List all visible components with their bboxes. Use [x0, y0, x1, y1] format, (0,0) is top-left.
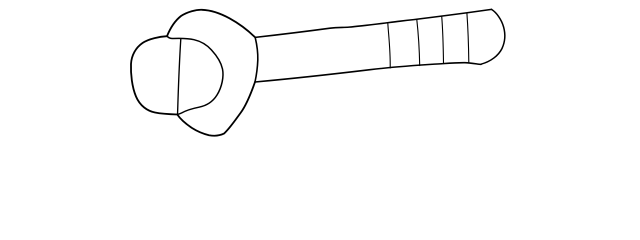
shaft top line: [255, 9, 491, 37]
bolt flange bottom arc: [177, 82, 255, 136]
bolt head front face outline: [131, 36, 177, 114]
thread line 1: [388, 23, 390, 68]
thread line 2: [417, 20, 420, 66]
shaft bottom line: [255, 63, 481, 82]
bolt flange top arc: [167, 10, 255, 38]
bolt head right face: [167, 36, 223, 114]
shaft tip curve: [481, 9, 505, 64]
bolt flange right edge: [255, 37, 258, 82]
thread line 4: [467, 13, 469, 62]
thread line 3: [442, 16, 444, 64]
bolt head edge line: [178, 39, 181, 114]
